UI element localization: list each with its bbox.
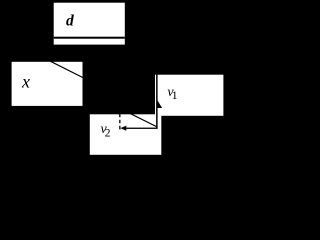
v2 arrowhead	[120, 126, 126, 131]
box d (table top)	[54, 3, 125, 45]
half arrowhead flare on vertical line	[157, 100, 162, 108]
diagonal velocity arrow into junction	[124, 110, 157, 127]
incline line	[48, 60, 83, 78]
horizontal v2 arrow shaft	[126, 128, 158, 129]
vertical line v1 arrow / border	[156, 75, 158, 129]
svg-text:x: x	[21, 72, 30, 92]
box v2 (bottom middle)	[90, 114, 162, 155]
svg-text:d: d	[66, 12, 74, 29]
dashed vertical line	[119, 114, 121, 131]
svg-text:2: 2	[105, 128, 111, 140]
box x (incline)	[12, 62, 83, 106]
box v1	[155, 75, 223, 116]
line under d (table surface line)	[54, 37, 125, 39]
svg-text:1: 1	[172, 88, 178, 102]
